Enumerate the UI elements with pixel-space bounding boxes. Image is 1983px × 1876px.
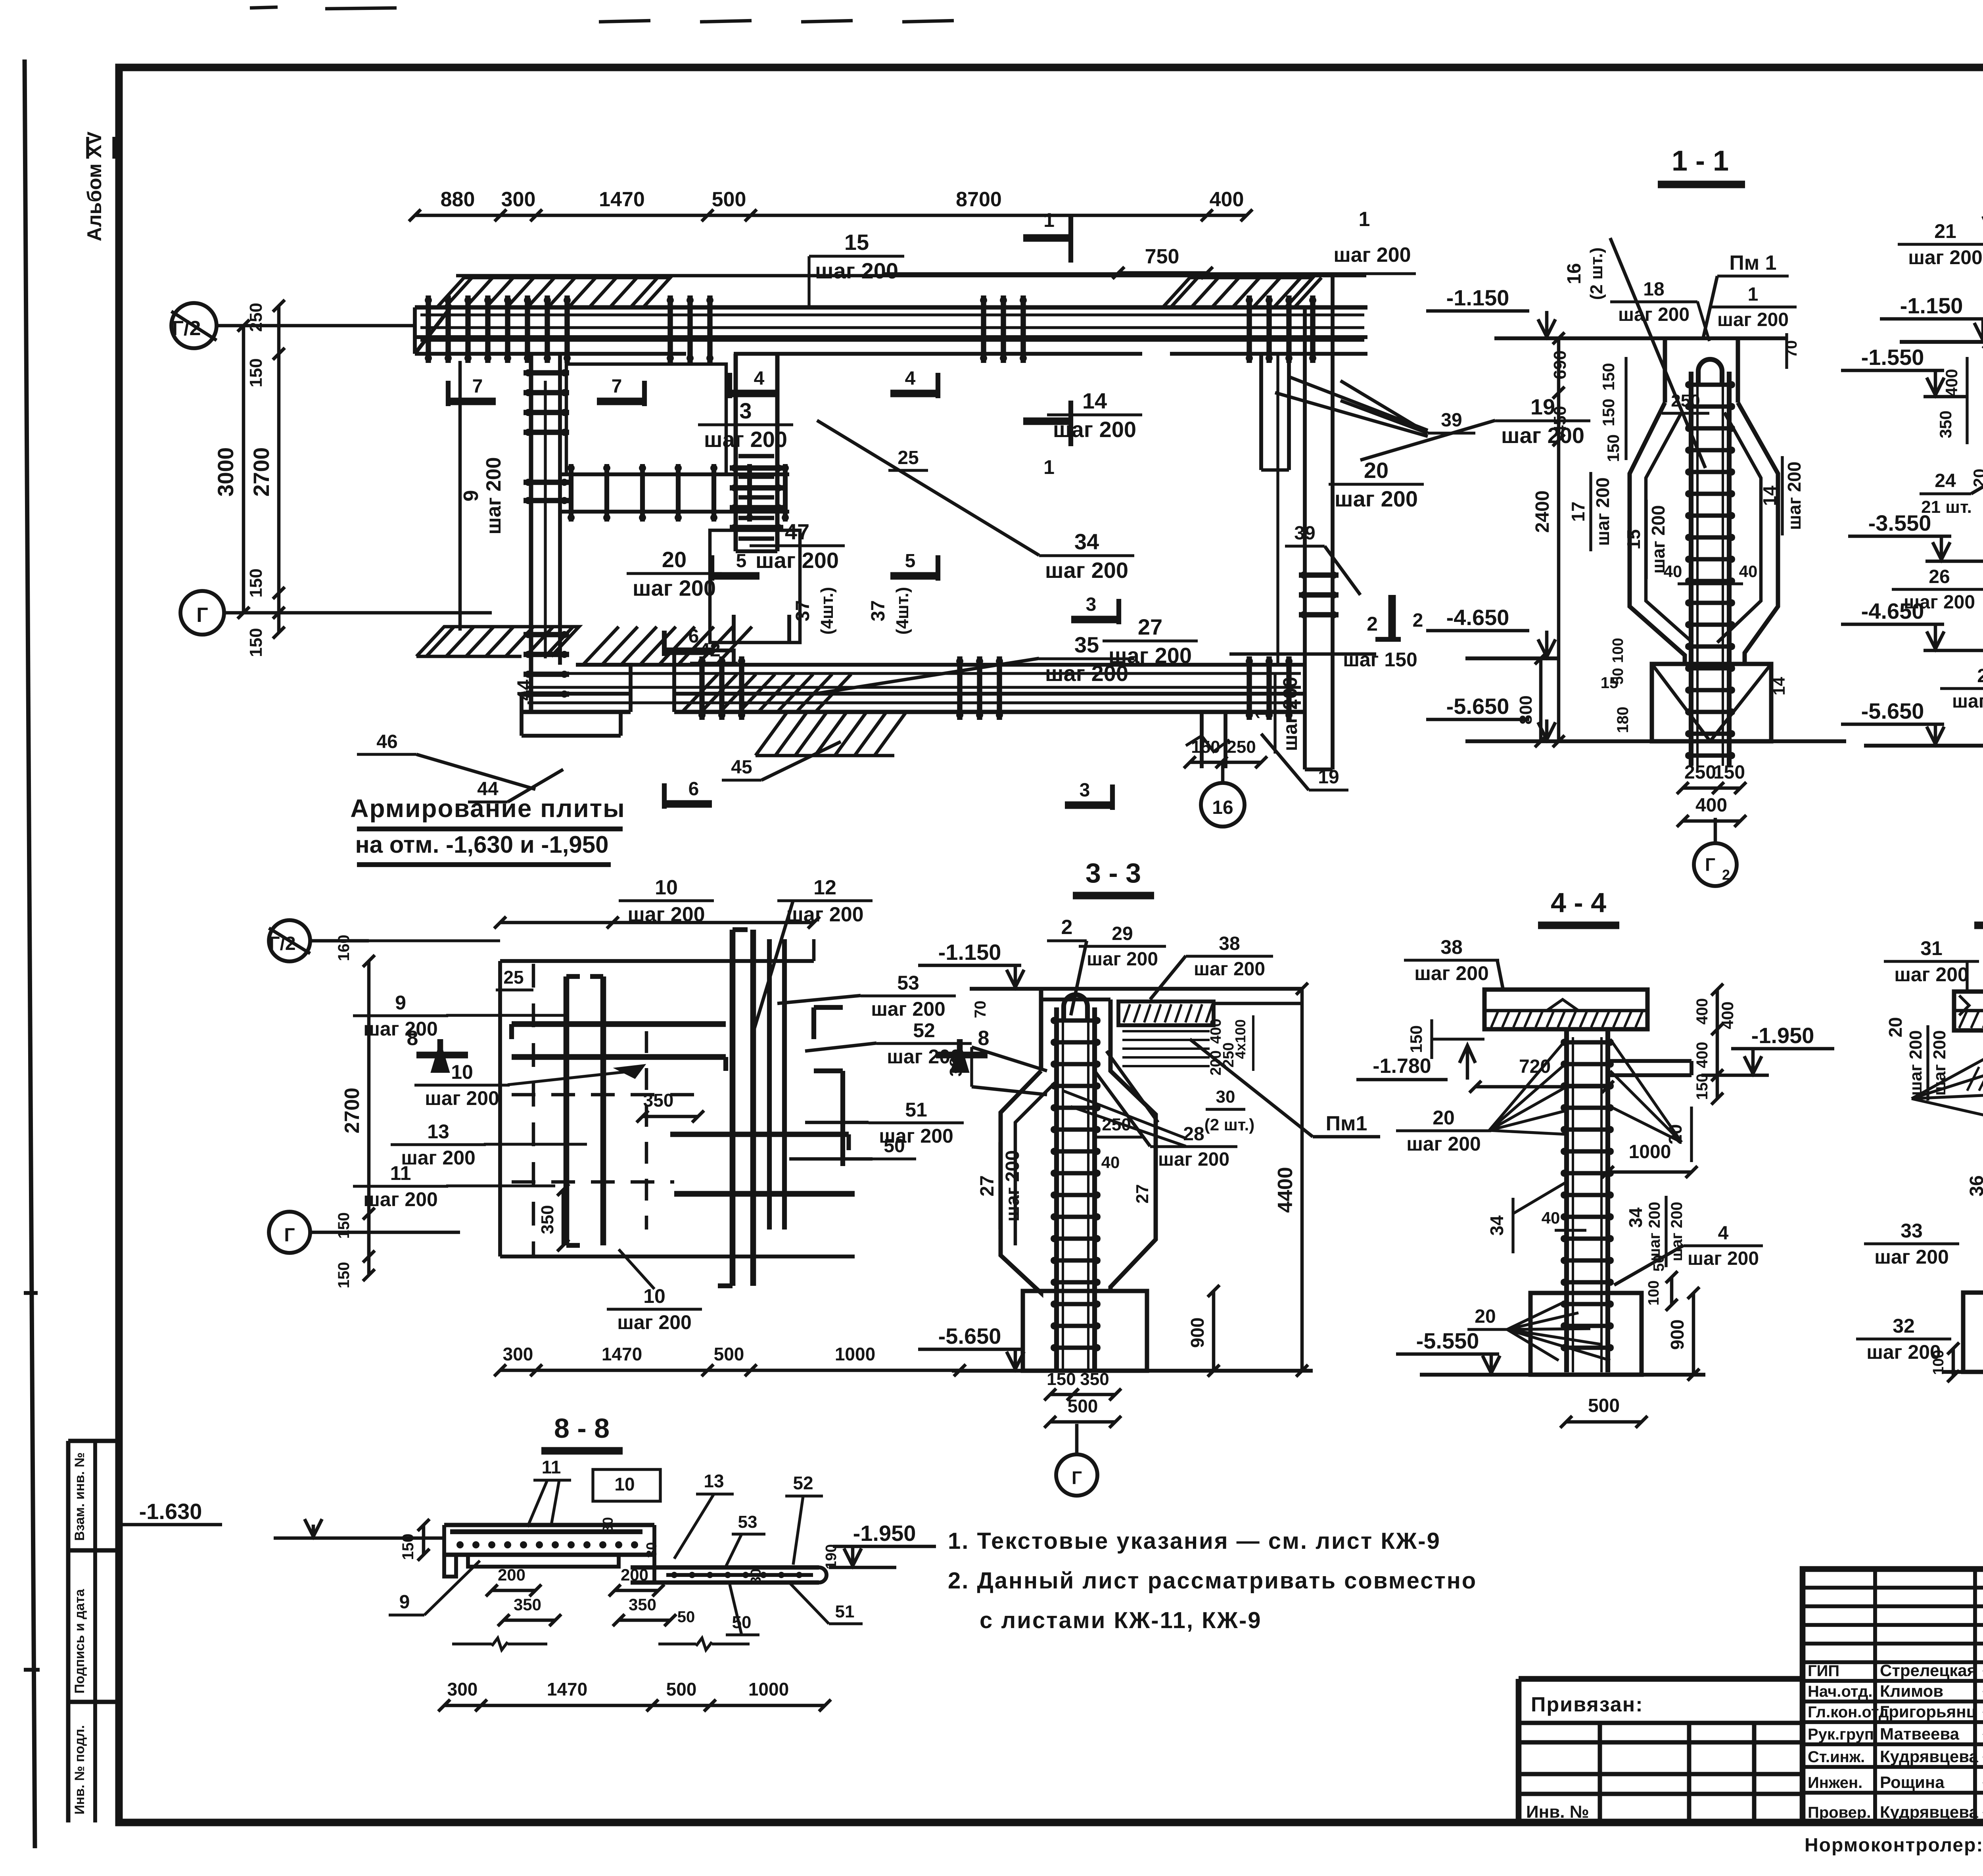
svg-text:Г: Г: [196, 604, 208, 627]
svg-text:Подпись и дата: Подпись и дата: [72, 1588, 87, 1694]
section 4-4 label 20 шаг 200 + fan: [1396, 1039, 1567, 1155]
plan section cut 1 (bottom): [1023, 401, 1071, 478]
plan grid axis circle Г: [180, 591, 492, 635]
svg-text:37: 37: [792, 600, 813, 621]
svg-text:шаг 200: шаг 200: [871, 998, 945, 1020]
plan top wall band: [415, 305, 1367, 354]
section 4-4 label 20 right + fan: [1610, 1039, 1691, 1162]
section 4-4 label 38 шаг 200: [1404, 936, 1503, 990]
svg-text:16: 16: [1212, 797, 1233, 818]
svg-text:20: 20: [1433, 1107, 1455, 1129]
svg-text:30: 30: [1216, 1087, 1235, 1107]
plan rebar group left wall bottom: [524, 631, 569, 698]
section 2-2 label 25 шаг 200: [1940, 619, 1983, 712]
section 1-1 wall outline: [1630, 338, 1778, 664]
plate plan label 10 шаг 200 (mid): [414, 1061, 642, 1109]
svg-text:4x100: 4x100: [1232, 1019, 1248, 1059]
svg-text:1: 1: [1043, 209, 1055, 231]
plate plan dim 350 (lower) vertical: [538, 1184, 569, 1251]
plan label 14 шаг 200: [1047, 388, 1142, 442]
svg-text:150: 150: [246, 628, 266, 657]
svg-text:160: 160: [335, 935, 353, 961]
svg-text:25: 25: [503, 967, 524, 988]
svg-text:44: 44: [514, 679, 535, 701]
svg-text:1. Текстовые указания — см. л: 1. Текстовые указания — см. лист КЖ-9: [948, 1528, 1441, 1554]
privyazan table: [1519, 1679, 1803, 1822]
svg-text:шаг 200: шаг 200: [1688, 1248, 1759, 1269]
svg-text:300: 300: [447, 1679, 478, 1700]
plan section cut 3 (bottom): [1065, 780, 1112, 810]
section 1-1 small dims left 150x3 690 450 2400 800: [1516, 332, 1626, 747]
plate plan label 9 шаг 200: [353, 992, 567, 1040]
svg-text:350: 350: [643, 1090, 674, 1111]
svg-text:36: 36: [1966, 1175, 1983, 1196]
plan central column: [736, 354, 777, 551]
svg-text:11: 11: [390, 1162, 411, 1184]
svg-text:Г/2: Г/2: [172, 317, 201, 340]
plate plan label 25: [496, 967, 533, 990]
section 4-4 column ladder: [1561, 1029, 1614, 1372]
svg-text:шаг 200: шаг 200: [1087, 949, 1158, 970]
svg-text:250: 250: [1227, 737, 1256, 757]
plan left dimension 3000: [213, 320, 249, 619]
svg-text:2: 2: [1413, 610, 1423, 631]
plate plan dim 2700: [335, 935, 375, 1289]
section 8-8 labels 53 50 51: [726, 1512, 863, 1635]
svg-text:39: 39: [1441, 410, 1462, 431]
plan interior wall with rebars: [560, 464, 789, 522]
section 1-1 datum -1.150: [1426, 285, 1787, 338]
svg-text:250: 250: [1671, 391, 1700, 410]
svg-text:шаг 200: шаг 200: [1874, 1246, 1949, 1268]
svg-text:28: 28: [1183, 1124, 1204, 1145]
svg-text:25: 25: [898, 447, 919, 468]
svg-text:20: 20: [1475, 1306, 1496, 1327]
svg-text:3 - 3: 3 - 3: [1085, 857, 1141, 888]
section 8-8 break marks: [452, 1638, 750, 1650]
svg-text:1470: 1470: [547, 1679, 587, 1700]
section 4-4 label 4 шаг 200: [1614, 1223, 1763, 1285]
svg-text:шаг 200: шаг 200: [1908, 246, 1983, 269]
svg-text:-1.780: -1.780: [1373, 1055, 1431, 1078]
plan right wall: [1186, 276, 1333, 769]
svg-text:53: 53: [897, 972, 919, 994]
plan section cut 6: [664, 626, 712, 809]
svg-text:400: 400: [1942, 369, 1961, 397]
svg-text:1: 1: [1359, 208, 1370, 231]
svg-text:150: 150: [1047, 1370, 1076, 1389]
svg-text:51: 51: [835, 1602, 855, 1621]
left stamp column: [68, 1441, 119, 1822]
plan rebar group bottom band 3: [1246, 656, 1293, 720]
svg-text:14: 14: [1770, 677, 1788, 695]
svg-text:2400: 2400: [1532, 491, 1553, 533]
svg-text:шаг 200: шаг 200: [1333, 244, 1411, 267]
svg-text:50: 50: [1651, 1255, 1667, 1272]
plate plan top dim row: [494, 917, 820, 928]
svg-text:15: 15: [1623, 529, 1644, 549]
section 2-2 datum -4.650: [1841, 598, 1983, 650]
svg-text:3: 3: [1086, 594, 1097, 615]
svg-text:шаг 200: шаг 200: [1952, 691, 1983, 712]
svg-text:14: 14: [1082, 388, 1107, 413]
section 3-3 label 2: [1047, 916, 1087, 1015]
section 3-3 dim 4400: [1274, 983, 1308, 1377]
svg-text:Привязан:: Привязан:: [1531, 1693, 1644, 1716]
plan label 20 шаг 200 right: [1329, 458, 1424, 511]
section 5-5 footing: [1963, 1293, 1983, 1372]
plate plan inner rebar horizontals: [512, 1007, 855, 1194]
svg-text:ГИП: ГИП: [1808, 1662, 1839, 1680]
section 4-4 dim 500: [1560, 1395, 1647, 1428]
svg-text:250: 250: [246, 303, 266, 332]
svg-text:34: 34: [1625, 1207, 1646, 1228]
plan label 45: [722, 742, 841, 780]
section 5-5 datum -5.550: [1943, 1324, 1983, 1372]
plan label 2 шаг 150: [1229, 613, 1417, 671]
plan rebar group right wall: [1299, 572, 1339, 618]
svg-text:180: 180: [1614, 707, 1632, 733]
svg-text:-1.150: -1.150: [1446, 285, 1509, 310]
svg-text:шаг 200: шаг 200: [1646, 1202, 1663, 1261]
plate plan extra rebar lines: [646, 1031, 849, 1230]
svg-text:29: 29: [1112, 923, 1133, 944]
section 4-4 right dims 400 400 150: [1693, 984, 1737, 1105]
svg-text:350: 350: [629, 1595, 656, 1614]
section 8-8 labels 11 10 13 52: [527, 1457, 823, 1565]
svg-text:Г: Г: [1705, 854, 1715, 875]
svg-text:46: 46: [376, 731, 397, 752]
svg-text:шаг 200: шаг 200: [756, 548, 839, 573]
svg-text:шаг 200: шаг 200: [1717, 309, 1789, 330]
svg-text:Кудрявцева: Кудрявцева: [1880, 1747, 1978, 1766]
svg-text:24: 24: [1935, 470, 1956, 491]
svg-text:Стрелецкая: Стрелецкая: [1880, 1661, 1977, 1680]
plan interior room 2: [710, 530, 800, 643]
section 3-3 small dims right 400 200 250 4x100: [1208, 1015, 1253, 1076]
plan rebar group bottom band 1: [698, 656, 745, 720]
svg-text:(2 шт.): (2 шт.): [1587, 247, 1606, 300]
plate plan section cut 8 (right): [936, 1027, 989, 1071]
svg-text:шаг 200: шаг 200: [1158, 1149, 1229, 1170]
svg-text:3000: 3000: [213, 447, 238, 497]
svg-text:40: 40: [1664, 562, 1682, 581]
section 1-1 datum -5.650: [1426, 694, 1846, 741]
svg-text:-1.950: -1.950: [853, 1521, 916, 1546]
svg-text:4: 4: [905, 368, 916, 389]
svg-text:шаг 200: шаг 200: [1045, 558, 1128, 583]
svg-text:2: 2: [1367, 613, 1378, 635]
svg-text:32: 32: [1893, 1315, 1915, 1337]
section 3-3 column ladder: [1051, 995, 1101, 1370]
svg-text:350: 350: [1936, 410, 1955, 438]
plan bottom wall band: [522, 650, 1305, 736]
svg-text:100: 100: [1930, 1350, 1947, 1375]
svg-text:25: 25: [1977, 666, 1983, 687]
svg-text:Инв. №: Инв. №: [1526, 1802, 1589, 1822]
svg-text:1000: 1000: [748, 1679, 789, 1700]
svg-text:20: 20: [662, 547, 687, 572]
plan label 42: [690, 640, 738, 663]
section 1-1 label 17 шаг 200 vertical: [1568, 472, 1613, 551]
svg-text:Провер.: Провер.: [1808, 1804, 1871, 1821]
svg-text:500: 500: [1588, 1395, 1620, 1416]
svg-text:Инв. № подл.: Инв. № подл.: [72, 1725, 87, 1815]
section 3-3 fan leaders: [1063, 1091, 1186, 1146]
plate plan label 50: [789, 1136, 916, 1159]
section 4-4 footing: [1530, 1293, 1642, 1375]
svg-text:30: 30: [643, 1542, 660, 1558]
svg-text:Григорьянц: Григорьянц: [1880, 1702, 1977, 1721]
svg-text:20: 20: [1970, 469, 1983, 487]
svg-text:21: 21: [1934, 220, 1956, 242]
plan rebar group top band mid: [667, 295, 713, 363]
svg-text:500: 500: [1068, 1396, 1098, 1416]
plan section cut 2 (right): [1375, 595, 1423, 639]
section 5-5 hatch small: [1967, 1067, 1983, 1134]
svg-text:400: 400: [1210, 188, 1244, 211]
section 5-5 title: [1974, 887, 1983, 925]
svg-text:42: 42: [699, 640, 720, 661]
svg-text:2700: 2700: [341, 1088, 364, 1134]
svg-text:8: 8: [407, 1027, 418, 1050]
section 3-3 footing: [1023, 1291, 1147, 1371]
svg-text:50: 50: [677, 1608, 695, 1626]
svg-text:2700: 2700: [249, 447, 274, 497]
svg-text:Гл.кон.отд: Гл.кон.отд: [1808, 1703, 1889, 1721]
svg-text:18: 18: [1643, 279, 1664, 300]
svg-text:на отм. -1,630 и -1,950: на отм. -1,630 и -1,950: [355, 831, 608, 858]
svg-text:шаг 200: шаг 200: [1279, 677, 1301, 751]
section 1-1 label Пм 1: [1703, 251, 1789, 337]
top margin dashed line: [250, 7, 954, 22]
svg-text:500: 500: [712, 188, 746, 211]
svg-text:шаг 200: шаг 200: [1904, 592, 1975, 613]
section 3-3 label 27 vertical right: [1133, 1184, 1152, 1204]
plate plan title: [350, 794, 625, 865]
section 1-1 label 16 2шт: [1564, 238, 1705, 468]
svg-text:Рук.груп: Рук.груп: [1808, 1726, 1874, 1743]
svg-text:шаг 200: шаг 200: [1108, 643, 1192, 668]
section 5-5 label 20 шаг 200 vertical + fan: [1885, 1017, 1983, 1118]
plan interior room 1: [566, 364, 726, 474]
section 2-2 datum -1.550: [1841, 345, 1967, 397]
section 4-4 datum -5.550: [1396, 1328, 1705, 1375]
svg-text:шаг 200: шаг 200: [1335, 486, 1418, 511]
svg-text:880: 880: [441, 188, 475, 211]
section 5-5 label 33 шаг 200: [1864, 1220, 1959, 1268]
svg-text:45: 45: [731, 757, 752, 778]
section 4-4 datum -1.950: [1701, 1023, 1834, 1075]
svg-text:26: 26: [1929, 566, 1950, 587]
svg-text:1: 1: [1748, 284, 1759, 305]
svg-text:Ст.инж.: Ст.инж.: [1808, 1748, 1865, 1766]
svg-text:40: 40: [1739, 562, 1758, 581]
section 1-1 datum -4.650: [1426, 605, 1559, 658]
plan rebar group left wall mid: [524, 479, 569, 504]
svg-text:400: 400: [1693, 998, 1711, 1025]
svg-text:-5.650: -5.650: [1446, 694, 1509, 719]
svg-text:шаг 200: шаг 200: [1053, 417, 1136, 442]
plan bottom-right hatched band: [756, 712, 906, 756]
svg-text:900: 900: [1187, 1318, 1208, 1348]
svg-text:Армирование плиты: Армирование плиты: [350, 794, 625, 823]
svg-text:7: 7: [612, 376, 622, 397]
svg-text:шаг 200: шаг 200: [1592, 478, 1613, 546]
svg-text:150: 150: [246, 568, 266, 597]
svg-text:1000: 1000: [835, 1344, 875, 1364]
plan label 1 шаг 200 (top right): [884, 208, 1416, 274]
svg-text:30: 30: [600, 1517, 616, 1533]
section 3-3 title: [1073, 857, 1154, 896]
svg-text:шаг 200: шаг 200: [425, 1087, 499, 1109]
svg-text:300: 300: [503, 1344, 533, 1364]
svg-text:3: 3: [739, 398, 752, 423]
plan bottom dims 150 250: [1184, 737, 1267, 768]
signature table: [1803, 1569, 1983, 1822]
svg-text:52: 52: [793, 1473, 813, 1493]
svg-text:Взам. инв. №: Взам. инв. №: [72, 1452, 87, 1541]
svg-text:1470: 1470: [599, 188, 645, 211]
plan label 39 right lower: [1285, 523, 1360, 595]
plan bottom band longitudinal bars: [527, 673, 1301, 703]
svg-text:10: 10: [614, 1474, 635, 1494]
section 8-8 slab right thin: [631, 1525, 827, 1583]
svg-text:150: 150: [1191, 737, 1220, 757]
svg-text:шаг 200: шаг 200: [1501, 423, 1584, 448]
section 3-3 label 27 шаг 200 vertical: [977, 1142, 1023, 1230]
section 3-3 label 28 шаг 200: [1095, 1051, 1237, 1170]
svg-text:150: 150: [399, 1534, 417, 1560]
svg-text:16: 16: [1564, 263, 1585, 284]
plan label 1 шаг 200 (vertical right): [1251, 674, 1301, 754]
svg-text:шаг 200: шаг 200: [815, 258, 898, 283]
plate plan label 11 шаг 200: [353, 1162, 555, 1210]
svg-text:1: 1: [1043, 456, 1055, 478]
svg-text:шаг 200: шаг 200: [482, 457, 505, 534]
svg-text:200: 200: [498, 1565, 525, 1584]
svg-text:шаг 200: шаг 200: [1414, 962, 1489, 984]
plan axis circle 16: [1201, 762, 1245, 827]
svg-text:с листами КЖ-11, КЖ-9: с листами КЖ-11, КЖ-9: [980, 1607, 1262, 1633]
svg-text:20: 20: [1885, 1017, 1906, 1037]
svg-text:2. Данный лист рассматривать: 2. Данный лист рассматривать совместно: [948, 1568, 1477, 1594]
section 8-8 dim 150: [399, 1519, 430, 1561]
section 3-3 slab block right: [1118, 1001, 1302, 1066]
svg-text:150: 150: [1599, 363, 1618, 391]
plan section cut 4: [730, 368, 938, 398]
svg-text:20: 20: [1364, 458, 1388, 483]
svg-text:шаг 200: шаг 200: [1894, 963, 1969, 986]
section 3-3 labels 250 40: [1093, 1115, 1142, 1172]
plate plan outline: [500, 939, 855, 1256]
svg-text:шаг 200: шаг 200: [1906, 1030, 1925, 1095]
svg-text:10: 10: [451, 1061, 473, 1083]
section 2-2 label 26 шаг 200: [1892, 566, 1983, 613]
svg-text:Нач.отд.: Нач.отд.: [1808, 1683, 1872, 1700]
plan label 9 шаг 200 (vertical): [460, 361, 505, 631]
svg-text:3: 3: [1080, 780, 1090, 801]
svg-text:150: 150: [1604, 434, 1622, 462]
svg-text:17: 17: [1568, 501, 1588, 522]
plan dimension 750: [1112, 245, 1213, 279]
plan top slab edge: [456, 274, 1366, 278]
svg-text:300: 300: [501, 188, 536, 211]
svg-text:Г/2: Г/2: [269, 933, 295, 954]
svg-text:9: 9: [395, 992, 406, 1014]
plan rebar group left wall top: [524, 369, 569, 436]
svg-text:шаг 200: шаг 200: [617, 1311, 692, 1333]
svg-text:250: 250: [1684, 762, 1716, 783]
plan label 39 right top: [1341, 381, 1475, 433]
svg-text:9: 9: [399, 1592, 410, 1613]
svg-text:40: 40: [1101, 1153, 1120, 1172]
svg-text:34: 34: [1074, 529, 1099, 554]
section 4-4 small dims 50 100: [1645, 1255, 1678, 1311]
section 5-5 label 36 шт8 vertical + fan: [1966, 1173, 1983, 1305]
svg-text:800: 800: [1516, 695, 1536, 724]
section 1-1 label 18 шаг 200: [1610, 279, 1709, 341]
svg-text:шаг 200: шаг 200: [704, 427, 787, 452]
section 1-1 label 1 шаг 200: [1709, 284, 1797, 330]
plan label 47 шаг 200: [750, 519, 845, 573]
section 8-8 dims 200 200 350 350 50 30: [486, 1517, 764, 1626]
svg-text:1: 1: [1251, 708, 1273, 719]
plan left dimension 2700/250/150: [246, 300, 285, 657]
sheet edge line: [24, 59, 40, 1848]
svg-text:8 - 8: 8 - 8: [554, 1413, 610, 1444]
svg-text:900: 900: [1667, 1320, 1688, 1350]
plan grid axis circle Г/2: [171, 303, 415, 348]
svg-text:10: 10: [655, 876, 678, 899]
section 8-8 slab left: [444, 1525, 654, 1577]
svg-text:52: 52: [913, 1019, 935, 1042]
plate plan label 51 шаг 200: [805, 1099, 964, 1147]
section 1-1 axis circle Г2: [1694, 818, 1737, 886]
section 5-5 label 31 шаг 200: [1884, 937, 1979, 992]
svg-text:150: 150: [246, 358, 266, 387]
svg-text:30: 30: [748, 1569, 764, 1584]
plan label 19 шаг 200 right: [1360, 394, 1590, 460]
svg-text:(2 шт.): (2 шт.): [1204, 1115, 1255, 1134]
svg-text:-4.650: -4.650: [1446, 605, 1509, 630]
svg-text:500: 500: [714, 1344, 744, 1364]
album label: [83, 131, 114, 242]
section 8-8 datum -1.630: [119, 1499, 444, 1538]
svg-text:(4шт.): (4шт.): [817, 587, 837, 635]
svg-text:8: 8: [978, 1027, 990, 1050]
section 4-4 dim 1000: [1602, 1141, 1697, 1178]
section 3-3 label Пм1: [1190, 1039, 1380, 1137]
plan section cut 7: [448, 376, 644, 406]
svg-text:38: 38: [1219, 933, 1240, 954]
svg-text:37: 37: [868, 600, 889, 621]
section 3-3 labels 70 38: [946, 1001, 1047, 1095]
svg-text:13: 13: [427, 1120, 449, 1143]
svg-text:5: 5: [905, 551, 916, 572]
svg-text:350: 350: [538, 1205, 557, 1234]
svg-text:4: 4: [754, 368, 765, 389]
svg-text:Г: Г: [1072, 1467, 1082, 1488]
section 2-2 label 21 шаг 200: [1898, 220, 1983, 345]
svg-text:8700: 8700: [956, 188, 1002, 211]
plan top dimension row 880/300/1470/500/8700/400: [409, 188, 1252, 221]
svg-text:Матвеева: Матвеева: [1880, 1724, 1960, 1743]
plan top band longitudinal bars: [420, 315, 1364, 340]
section 8-8 label 9: [389, 1561, 480, 1615]
svg-text:шаг 200: шаг 200: [1784, 462, 1805, 530]
svg-text:шаг 200: шаг 200: [1618, 304, 1690, 325]
